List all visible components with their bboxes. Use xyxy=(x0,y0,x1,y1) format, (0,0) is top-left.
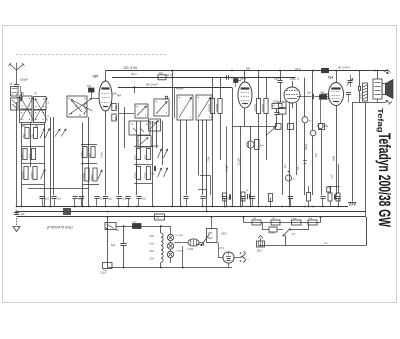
capacitor 5uF right xyxy=(307,92,314,100)
trimmer arrows m1 xyxy=(158,149,168,158)
svg-text:44 V: 44 V xyxy=(131,72,137,76)
wire v x338b xyxy=(338,164,340,193)
resistor 2000 m xyxy=(134,167,141,180)
wire v x258 xyxy=(258,71,260,207)
voltage selector box xyxy=(207,217,218,243)
capacitor decoupling 2 xyxy=(51,197,61,207)
capacitor decoupling 7 xyxy=(116,197,126,207)
svg-text:1M: 1M xyxy=(272,106,275,108)
wire v x313 xyxy=(312,71,314,131)
wire v x1235 xyxy=(123,226,125,268)
wire speaker bottom xyxy=(352,99,386,103)
svg-text:0,5µF: 0,5µF xyxy=(225,165,229,172)
svg-text:44 V: 44 V xyxy=(166,73,172,77)
capacitor decoupling 6 xyxy=(103,197,112,207)
logo Tefag xyxy=(376,108,385,133)
wire v x282 lower xyxy=(282,114,284,195)
svg-text:300: 300 xyxy=(144,155,148,160)
label 44V b xyxy=(131,72,137,76)
IF can 4 xyxy=(196,95,212,120)
wire v x157 xyxy=(156,121,158,148)
svg-text:CF3: CF3 xyxy=(240,77,246,81)
net drop left xyxy=(243,217,245,223)
svg-text:0,5: 0,5 xyxy=(314,153,318,157)
bus wire 3 xyxy=(17,216,367,218)
tuning arrow osc xyxy=(69,99,92,115)
component on bus2 xyxy=(64,209,71,215)
capacitor 5uF power xyxy=(111,244,127,248)
wire v x3655 xyxy=(365,103,367,217)
svg-text:50000: 50000 xyxy=(261,104,265,112)
cap 1uF left xyxy=(14,211,25,216)
resistor 150 xyxy=(22,128,29,139)
wire v x226 xyxy=(225,127,227,208)
rot label x316 xyxy=(314,153,318,157)
svg-text:Tefag: Tefag xyxy=(376,108,385,133)
wire tie x80 y163 xyxy=(81,163,97,165)
svg-text:50: 50 xyxy=(114,105,118,109)
wire tie x83 y184 xyxy=(83,184,99,186)
speaker arrow bottom xyxy=(386,100,392,104)
svg-text:5µF: 5µF xyxy=(307,92,312,95)
label 100.5kOhm xyxy=(123,66,138,70)
bus wire 2 xyxy=(15,210,365,212)
bandfilter box L1a xyxy=(20,96,33,109)
svg-text:20000: 20000 xyxy=(361,93,363,99)
svg-text:1000: 1000 xyxy=(80,151,84,158)
svg-text:7V 0,6A: 7V 0,6A xyxy=(175,234,183,237)
osc coupling box B xyxy=(154,96,169,116)
svg-text:4µF: 4µF xyxy=(260,145,264,147)
svg-text:500: 500 xyxy=(134,155,138,160)
wire antenna to gang xyxy=(17,96,23,207)
resistor box cbc a xyxy=(272,102,287,108)
label 100pF mid xyxy=(150,121,158,125)
svg-text:T 65/28: T 65/28 xyxy=(176,251,184,253)
wire v x1075 down xyxy=(107,232,109,268)
svg-text:CF3: CF3 xyxy=(150,250,155,253)
grid stopper cf3 xyxy=(234,79,242,88)
label C14 xyxy=(150,258,155,261)
label C87 xyxy=(93,75,99,79)
svg-text:0,1: 0,1 xyxy=(296,166,300,170)
svg-text:Tefadyn 200/38 GW: Tefadyn 200/38 GW xyxy=(375,133,393,227)
cap box bottom left xyxy=(103,263,113,272)
resistor 200 on supply xyxy=(322,68,329,72)
label Umd rotated xyxy=(101,152,104,158)
rectifier CY1 xyxy=(219,246,235,263)
svg-text:500: 500 xyxy=(88,153,92,158)
svg-text:U md: U md xyxy=(101,152,104,158)
wire tie m y183 xyxy=(134,183,153,185)
wire screen supply xyxy=(112,77,295,79)
small circle 50 xyxy=(302,117,312,123)
svg-text:10000: 10000 xyxy=(30,171,34,179)
tone cap c4 xyxy=(347,75,354,88)
svg-text:2000: 2000 xyxy=(144,172,148,179)
IF can 3 xyxy=(177,95,193,120)
resistor 3000 b xyxy=(90,168,97,181)
wire AVC line xyxy=(118,87,232,89)
svg-text:0,1µF: 0,1µF xyxy=(237,157,241,165)
rot label x226 xyxy=(225,165,229,172)
wire v x297 xyxy=(296,103,298,175)
wire left tie1 xyxy=(22,124,45,126)
wire v x232 xyxy=(232,88,234,207)
wire v x305 xyxy=(304,78,306,196)
svg-text:(f=450/475 kHz): (f=450/475 kHz) xyxy=(47,226,73,230)
wire left tie3 xyxy=(22,163,45,165)
label C4 xyxy=(328,76,333,80)
wire h y126 xyxy=(232,126,277,128)
osc mid box E xyxy=(149,119,161,131)
res above bus c xyxy=(269,194,273,208)
rot label 2k xyxy=(332,155,336,161)
label 500 on line1 xyxy=(246,67,251,70)
wire left h188 xyxy=(28,188,89,190)
svg-text:0,5: 0,5 xyxy=(330,174,334,178)
trimmer arrows m2 xyxy=(158,168,168,177)
speaker xyxy=(382,80,393,99)
svg-text:20000: 20000 xyxy=(21,171,25,179)
resistor 3000 xyxy=(29,149,36,161)
svg-text:3000: 3000 xyxy=(29,153,33,160)
label 7V 06A xyxy=(175,234,183,237)
net res 1 xyxy=(252,218,261,225)
resistor 10000 b xyxy=(82,168,89,181)
tuning arrow X1 xyxy=(21,98,34,121)
label 100pF ant xyxy=(20,78,28,82)
resistor power dark xyxy=(133,222,142,229)
wire h y113 xyxy=(119,113,134,115)
svg-text:5µF: 5µF xyxy=(111,244,116,247)
svg-text:0,5: 0,5 xyxy=(45,197,49,201)
arrow supply end xyxy=(383,69,391,74)
wire v x1075 top xyxy=(107,217,109,232)
capacitor x3595 xyxy=(359,86,361,91)
svg-text:5µ: 5µ xyxy=(109,197,113,201)
resistor 1M horiz xyxy=(272,101,282,109)
capacitor decoupling 11 xyxy=(200,197,205,207)
bandfilter box L2b xyxy=(34,110,46,123)
wire v x141 xyxy=(140,121,142,148)
heater chain coil xyxy=(161,226,164,268)
resistor 2000 m2 xyxy=(144,167,151,180)
wire v x124 xyxy=(124,107,126,148)
label if freq xyxy=(47,226,73,230)
grid stopper c4 xyxy=(320,95,329,123)
svg-text:1000: 1000 xyxy=(20,153,24,160)
title Tefadyn 200/38 GW xyxy=(375,133,393,227)
svg-text:13k/5W: 13k/5W xyxy=(268,233,275,235)
wire v x153 xyxy=(152,121,154,207)
svg-text:2000: 2000 xyxy=(134,172,138,179)
tube C87 xyxy=(99,71,112,196)
osc low box D xyxy=(138,136,151,148)
ganged tuning dashed line xyxy=(16,54,168,56)
wire HT supply top xyxy=(106,70,389,72)
cap c4 b xyxy=(346,93,351,103)
top cap circle c4 xyxy=(318,123,328,130)
net wire top right xyxy=(366,217,368,246)
net res 3 xyxy=(291,218,301,225)
svg-text:1913: 1913 xyxy=(208,238,214,240)
net row2 box xyxy=(268,227,277,235)
electrolytic arrows mid xyxy=(55,129,66,137)
svg-text:150: 150 xyxy=(22,133,26,138)
res above bus b xyxy=(241,190,250,201)
wire v x3595 xyxy=(359,71,361,103)
dial lamp 3 xyxy=(167,251,173,257)
wire v x250 lower xyxy=(250,126,252,207)
wire v x266 xyxy=(266,78,268,161)
capacitor 500pF m xyxy=(151,166,156,176)
resistor 1000 xyxy=(20,149,27,161)
net wire bottom xyxy=(259,243,366,246)
gang labels xyxy=(20,93,50,129)
net res 2 xyxy=(271,218,280,225)
capacitor decoupling 9 xyxy=(136,197,146,207)
svg-text:50pF: 50pF xyxy=(274,78,280,81)
capacitor decoupling 15 xyxy=(288,197,293,207)
net switch xyxy=(277,229,291,237)
resistor 500 b xyxy=(88,147,95,159)
resistor 1000 b xyxy=(80,147,87,159)
wire left v5 xyxy=(53,117,55,195)
svg-text:0,5: 0,5 xyxy=(142,197,146,201)
svg-text:4µF: 4µF xyxy=(292,234,296,236)
wire v x83 xyxy=(82,123,84,207)
capacitor antenna xyxy=(14,85,19,87)
wire v x277 xyxy=(276,109,278,127)
svg-text:7,5k: 7,5k xyxy=(206,156,210,162)
label CF3 heater xyxy=(150,250,155,253)
svg-text:1MΩ: 1MΩ xyxy=(273,101,278,104)
wire v x207 xyxy=(206,120,208,212)
capacitor decoupling 17 xyxy=(335,197,340,207)
wire v x181 xyxy=(180,120,182,207)
svg-text:270: 270 xyxy=(20,93,25,96)
svg-text:1913: 1913 xyxy=(257,250,263,253)
wire cy1 xyxy=(218,243,239,258)
wire v x172 xyxy=(172,71,174,207)
rot label x306 xyxy=(304,143,308,150)
capacitor decoupling 14 xyxy=(250,197,255,207)
small box y126 c xyxy=(276,124,282,130)
svg-text:100pF: 100pF xyxy=(20,78,28,82)
bandfilter box L1b xyxy=(34,97,47,110)
rot label x331 xyxy=(330,174,334,178)
svg-text:0,1µF: 0,1µF xyxy=(100,272,107,275)
label 48 24uF xyxy=(146,83,158,87)
net res 4 xyxy=(308,218,317,225)
resistor 500 m xyxy=(134,149,141,161)
wire v x212 xyxy=(206,78,212,207)
resistor 300 m xyxy=(144,149,151,161)
wire v x137 xyxy=(136,121,138,195)
wire v x352 ground xyxy=(352,103,354,202)
svg-text:1Ω: 1Ω xyxy=(133,222,136,224)
svg-text:CY1: CY1 xyxy=(219,246,225,250)
small box y126 a xyxy=(288,124,294,130)
capacitor 01 cf3 xyxy=(274,113,283,117)
bend left block b xyxy=(198,190,207,196)
svg-text:50: 50 xyxy=(114,116,118,120)
svg-text:24 V: 24 V xyxy=(295,67,301,71)
capacitor decoupling 12 xyxy=(222,197,232,207)
capacitor 50 a xyxy=(112,104,118,111)
rot label x284 xyxy=(283,164,287,168)
resistor 50000 r xyxy=(261,99,268,114)
dial lamp 2 xyxy=(167,243,173,249)
svg-text:10000: 10000 xyxy=(82,173,86,181)
svg-text:15k: 15k xyxy=(31,133,35,138)
wire tie x80 y144 xyxy=(81,144,97,146)
svg-text:230V: 230V xyxy=(221,233,227,236)
wire v x203 xyxy=(202,120,204,195)
dial lamp 1 xyxy=(167,234,173,240)
wire left v4 xyxy=(50,117,52,207)
osc coupling box A xyxy=(135,104,148,118)
tuning arrow X2 xyxy=(35,98,48,121)
wire lamps xyxy=(170,226,172,263)
label 230V xyxy=(221,233,227,236)
osc low box C xyxy=(129,121,150,135)
capacitor 50pF xyxy=(274,78,283,83)
tube C4 xyxy=(329,71,344,196)
small box y126 b xyxy=(319,124,325,196)
component x289 y176 xyxy=(286,171,296,181)
wire left tie4 xyxy=(22,184,44,186)
net row2 seg a xyxy=(262,223,269,230)
tube CBC1 xyxy=(284,81,300,108)
net row2 seg b xyxy=(291,223,310,236)
antenna coupling box 2 xyxy=(10,83,19,110)
wire v x280 xyxy=(280,71,282,103)
trimmer arrows b xyxy=(98,170,102,179)
label 40V 44V xyxy=(338,65,350,69)
volume pot arrow xyxy=(266,127,276,136)
svg-text:500: 500 xyxy=(246,67,251,70)
tube CF3 xyxy=(238,71,252,127)
wire left tie2 xyxy=(22,146,45,148)
label C81 xyxy=(150,235,155,238)
wire v x198 xyxy=(198,120,200,176)
svg-text:30000: 30000 xyxy=(208,104,212,112)
wire v x89 xyxy=(88,117,90,207)
wire v x162 xyxy=(162,121,164,165)
wire h grid c4 xyxy=(297,96,321,98)
coil antenna xyxy=(21,86,23,101)
net wire mid xyxy=(243,216,322,222)
tick marks x305 xyxy=(303,161,307,164)
wire left v2 xyxy=(30,123,32,168)
svg-text:100, 5 kΩ: 100, 5 kΩ xyxy=(123,66,138,70)
res above bus d xyxy=(307,186,311,207)
res above bus a xyxy=(223,193,231,201)
wire rail power xyxy=(116,225,171,227)
small circle b xyxy=(310,130,316,195)
wire tie m y164 xyxy=(134,164,153,166)
svg-text:3000: 3000 xyxy=(90,174,94,181)
label 44V a xyxy=(166,73,172,77)
trimmer arrows c1 xyxy=(40,129,50,139)
resistor 10000 xyxy=(30,167,37,180)
svg-text:1M: 1M xyxy=(159,72,162,75)
bandfilter box L2a xyxy=(20,110,33,123)
series cap line2 xyxy=(227,75,229,79)
power labels extra xyxy=(100,229,119,275)
label 500pF mid xyxy=(152,144,160,148)
wire v x220 xyxy=(220,78,222,161)
svg-text:0,1µF: 0,1µF xyxy=(291,218,297,220)
svg-text:CA1: CA1 xyxy=(150,243,155,246)
net v mid xyxy=(285,236,287,246)
wire tie m y146 xyxy=(134,146,153,148)
mains plug xyxy=(239,252,250,263)
resistor 20000 xyxy=(21,167,28,180)
output transformer xyxy=(373,71,382,100)
ground left xyxy=(13,218,20,232)
antenna coupling box 1 xyxy=(11,87,19,97)
capacitor 50 b xyxy=(112,114,118,121)
antenna xyxy=(9,63,25,85)
svg-text:10000: 10000 xyxy=(215,104,219,112)
wire left v1 xyxy=(21,123,23,207)
wire v x241 xyxy=(237,126,241,207)
svg-text:40 V 44 V: 40 V 44 V xyxy=(338,65,350,69)
svg-text:48 2,4 µF: 48 2,4 µF xyxy=(146,83,158,87)
svg-text:C87: C87 xyxy=(93,75,99,79)
label CA1 xyxy=(150,243,155,246)
fuse 1913 xyxy=(257,236,265,253)
svg-text:C|4: C|4 xyxy=(328,76,333,80)
svg-text:0,1: 0,1 xyxy=(283,164,287,168)
barretter U50 xyxy=(188,239,200,251)
wire v x119 xyxy=(118,103,120,195)
resistor 1M box xyxy=(158,72,166,80)
svg-text:30000: 30000 xyxy=(254,104,258,112)
power bottom rail xyxy=(108,246,233,268)
rot label x298 xyxy=(296,166,300,170)
label CA8 xyxy=(112,92,118,96)
capacitor decoupling 5 xyxy=(94,197,104,207)
svg-text:400pF: 400pF xyxy=(176,87,184,91)
svg-text:C14: C14 xyxy=(150,258,155,261)
label 4M xyxy=(117,94,122,98)
feedback resistor hatch xyxy=(361,83,368,101)
svg-text:1µF: 1µF xyxy=(21,213,26,216)
svg-text:CBC 1: CBC 1 xyxy=(290,77,299,81)
label T6528 xyxy=(176,251,184,253)
label CF3 xyxy=(240,77,246,81)
svg-text:1MΩ: 1MΩ xyxy=(320,92,325,94)
mic jack circle xyxy=(247,140,265,150)
capacitor decoupling 1 xyxy=(39,197,49,207)
wire barretter xyxy=(174,243,204,247)
capacitor decoupling 4 xyxy=(79,197,84,207)
grid stopper 100 xyxy=(87,85,99,99)
resistor 30000 xyxy=(208,99,215,114)
wire v x134 xyxy=(134,86,136,93)
capacitor decoupling 13 xyxy=(240,197,245,207)
svg-text:0,5: 0,5 xyxy=(57,197,61,201)
label 400pF xyxy=(175,87,185,119)
resistor 10000 xyxy=(215,99,222,114)
res above bus e xyxy=(328,186,336,207)
label 24V xyxy=(295,67,301,71)
svg-text:50µF: 50µF xyxy=(304,143,308,150)
